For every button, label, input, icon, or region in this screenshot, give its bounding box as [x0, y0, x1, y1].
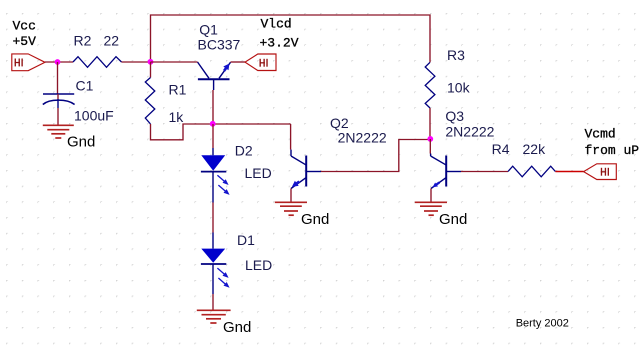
svg-text:LED: LED: [245, 165, 272, 181]
svg-text:D2: D2: [235, 143, 253, 159]
node junction J1 Vcc/C1: [55, 59, 61, 65]
wire Q3 base to R4: [461, 171, 508, 173]
node junction J2 R2/R1/Q1: [148, 59, 154, 65]
wire R2 to junction J2: [122, 61, 151, 63]
resistor R4: [508, 166, 555, 177]
transistor Q2: [291, 150, 321, 189]
svg-text:Berty 2002: Berty 2002: [516, 318, 569, 330]
svg-text:22k: 22k: [523, 141, 547, 157]
svg-text:1k: 1k: [169, 109, 185, 125]
wire J4 down to Q3 collector: [429, 139, 431, 154]
svg-text:LED: LED: [245, 257, 272, 273]
svg-text:R2: R2: [74, 32, 92, 48]
svg-text:R4: R4: [492, 141, 510, 157]
wire Q2 emitter to ground: [290, 189, 292, 202]
wire J2 to Q1 collector: [151, 61, 198, 63]
label HI inside Vcc tag: [15, 59, 23, 67]
resistor R3: [425, 62, 435, 108]
wire D2 cathode to D1 anode: [212, 203, 214, 233]
node junction J4 R3/Q2 base/Q3 collector: [427, 136, 433, 142]
ground under Q2: [275, 202, 307, 215]
connector HI Vcc (input tag): [12, 54, 45, 71]
svg-text:R1: R1: [169, 81, 187, 97]
wire C1 to ground: [57, 108, 59, 125]
label HI inside Vcmd tag: [601, 168, 609, 176]
wire Vcc tag to R2: [45, 61, 73, 63]
wire Q2 base to junction J4: [321, 140, 431, 172]
wire R4 to Vcmd tag: [555, 171, 583, 173]
svg-text:Gnd: Gnd: [301, 211, 329, 228]
wire Q1 emitter to Vlcd tag: [231, 61, 246, 63]
capacitor C1: [43, 94, 75, 108]
svg-text:R3: R3: [447, 47, 465, 63]
wire J3 down to D2: [212, 124, 214, 148]
wire R1 bottom jog to junction J3: [151, 124, 291, 140]
wire top bus from node above R1 to above R3: [151, 15, 431, 62]
svg-text:Q3: Q3: [445, 108, 464, 124]
connector HI Vcmd (input tag): [584, 164, 617, 180]
svg-text:+5V: +5V: [13, 34, 37, 49]
svg-text:+3.2V: +3.2V: [260, 36, 299, 51]
wire J1 down to C1: [57, 62, 59, 94]
transistor Q1: [198, 62, 231, 90]
svg-text:2N2222: 2N2222: [338, 129, 387, 145]
wire Q3 emitter to ground: [430, 189, 432, 202]
wire J3 to Q2 collector: [290, 124, 292, 150]
svg-text:from uP: from uP: [585, 143, 640, 158]
node junction J3 base of Q1 / R1 / D2 / Q2: [210, 121, 216, 127]
svg-text:Vcmd: Vcmd: [585, 127, 616, 142]
svg-text:22: 22: [104, 32, 120, 48]
label HI inside Vlcd tag: [260, 59, 268, 67]
resistor R1: [145, 62, 155, 124]
ground under Q3: [415, 202, 447, 215]
svg-text:Vcc: Vcc: [13, 19, 36, 34]
ground under D1: [197, 310, 231, 323]
svg-text:Gnd: Gnd: [223, 319, 251, 336]
svg-text:Q1: Q1: [199, 21, 218, 37]
ground under C1: [43, 125, 74, 138]
wire D1 cathode to ground: [212, 294, 214, 310]
wire Q1 base down to J3: [212, 90, 214, 124]
svg-text:10k: 10k: [447, 80, 471, 96]
svg-text:100uF: 100uF: [74, 108, 114, 124]
LED D1: [201, 233, 230, 295]
svg-text:C1: C1: [76, 77, 94, 93]
LED D2: [201, 148, 230, 203]
svg-text:Gnd: Gnd: [439, 211, 467, 228]
connector HI Vlcd (output tag): [245, 54, 276, 71]
svg-text:Gnd: Gnd: [67, 133, 95, 150]
transistor Q3: [431, 154, 461, 189]
svg-text:Vlcd: Vlcd: [261, 17, 292, 32]
wire R3 bottom to J4: [429, 108, 431, 139]
resistor R2: [73, 57, 122, 68]
svg-text:BC337: BC337: [198, 37, 241, 53]
svg-text:D1: D1: [237, 232, 255, 248]
svg-text:2N2222: 2N2222: [445, 124, 494, 140]
